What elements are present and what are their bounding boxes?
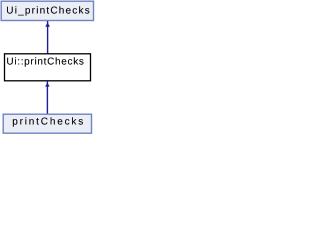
svg-text:Ui_printChecks: Ui_printChecks [6, 6, 89, 17]
svg-text:printChecks: printChecks [12, 117, 83, 128]
svg-text:Ui::printChecks: Ui::printChecks [6, 57, 84, 68]
